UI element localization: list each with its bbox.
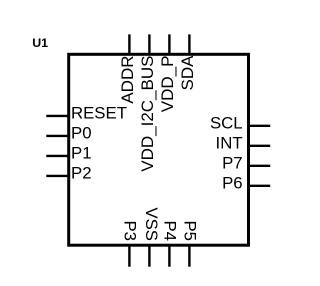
pin ADDR (top) wire: [128, 34, 130, 54]
svg-text:P6: P6: [222, 173, 243, 192]
svg-text:VDD_P: VDD_P: [158, 56, 177, 113]
pin SDA (top) wire: [188, 34, 190, 54]
svg-text:VDD_I2C_BUS: VDD_I2C_BUS: [138, 56, 157, 172]
svg-text:P4: P4: [161, 220, 180, 241]
svg-text:RESET: RESET: [71, 104, 127, 123]
svg-text:VSS: VSS: [142, 207, 161, 241]
pin P4 (bottom) wire: [168, 246, 170, 267]
pin INT (right) wire: [249, 145, 270, 147]
svg-text:P7: P7: [222, 153, 243, 172]
svg-text:ADDR: ADDR: [118, 56, 137, 104]
pin P6 (right) wire: [249, 185, 270, 187]
pin 2 P0 (left) wire: [46, 135, 68, 137]
svg-text:P3: P3: [121, 220, 140, 241]
svg-text:INT: INT: [216, 133, 243, 152]
svg-text:U1: U1: [32, 36, 48, 50]
svg-text:P0: P0: [71, 124, 92, 143]
pin VSS (bottom) wire: [148, 246, 150, 267]
pin P3 (bottom) wire: [128, 246, 130, 267]
pin VDD_I2C_BUS (top) wire: [148, 34, 150, 54]
pin 3 P1 (left) wire: [46, 155, 68, 157]
IC U1 body: [69, 54, 249, 245]
pin VDD_P (top) wire: [168, 34, 170, 54]
svg-text:SDA: SDA: [178, 55, 197, 91]
svg-text:P1: P1: [71, 144, 92, 163]
pin P7 (right) wire: [249, 165, 270, 167]
svg-text:P2: P2: [71, 164, 92, 183]
pin SCL (right) wire: [249, 125, 270, 127]
pin 4 P2 (left) wire: [46, 175, 68, 177]
svg-text:SCL: SCL: [210, 113, 243, 132]
pin P5 (bottom) wire: [188, 246, 190, 267]
pin 1 RESET (left) wire: [46, 115, 68, 117]
svg-text:P5: P5: [181, 220, 200, 241]
